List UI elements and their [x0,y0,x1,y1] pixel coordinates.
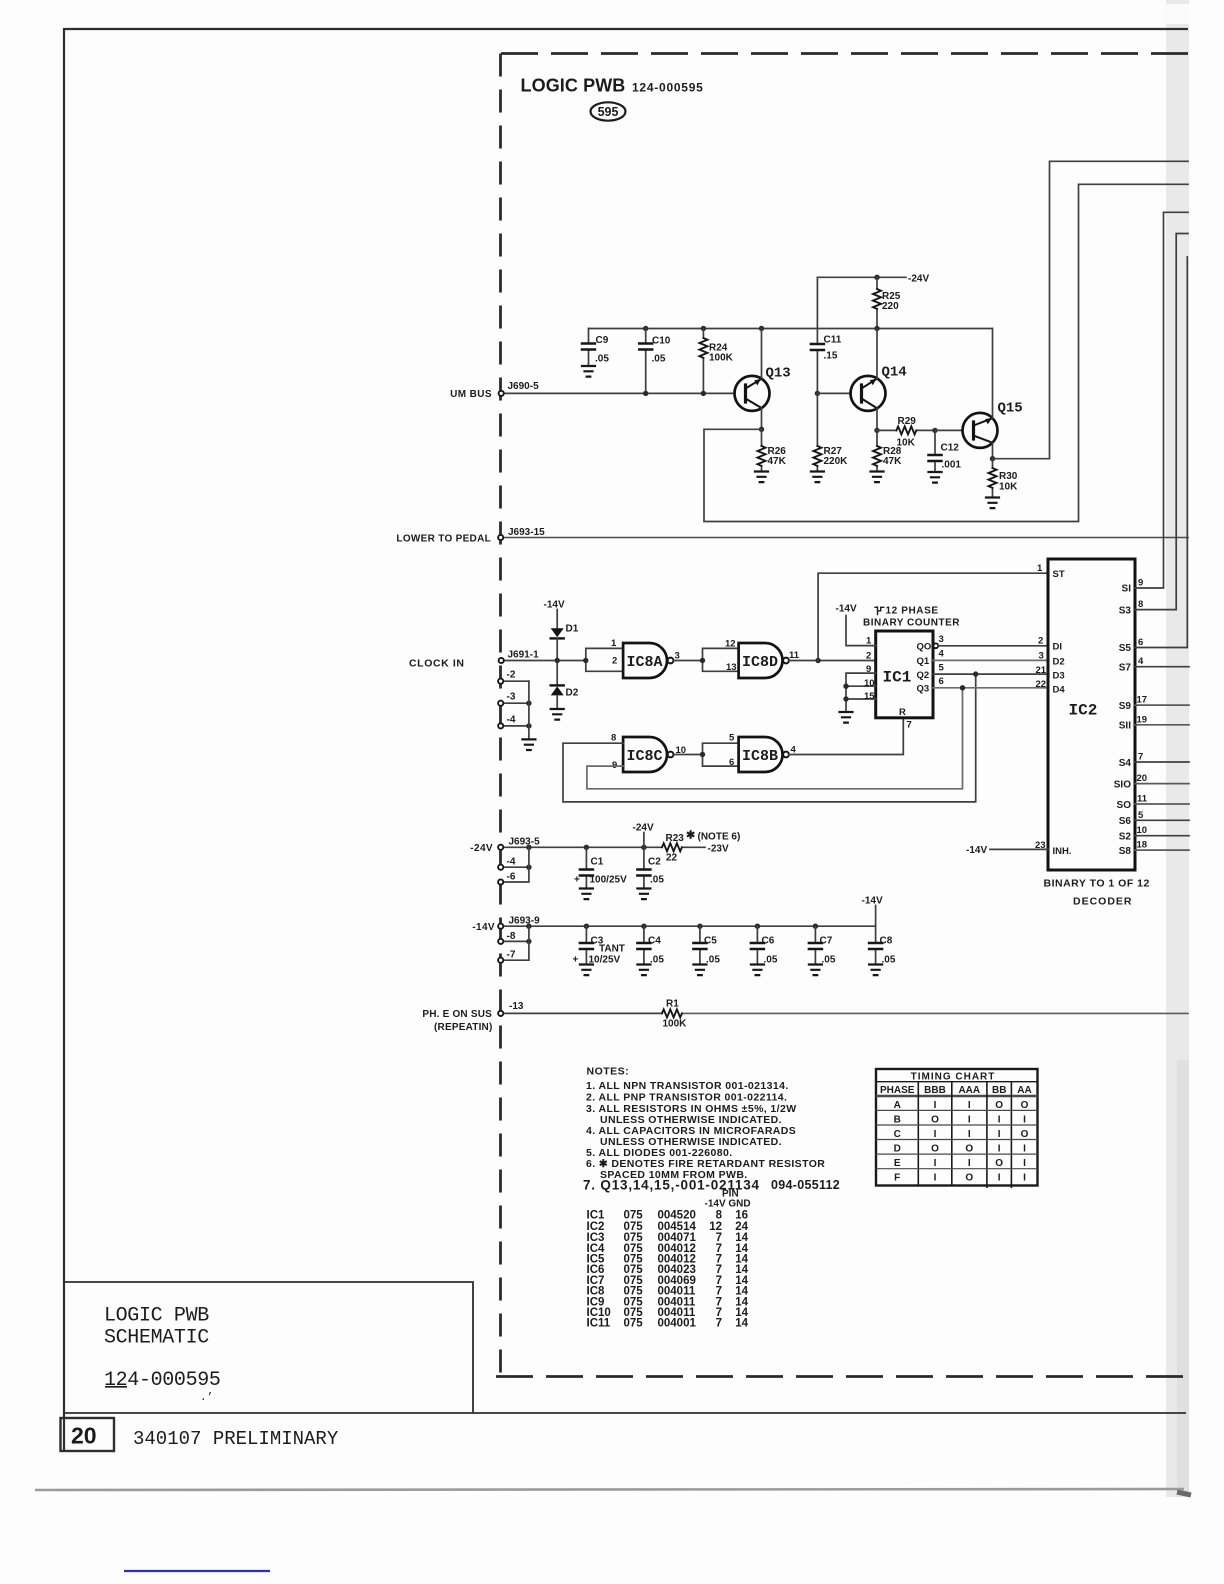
svg-text:O: O [931,1114,939,1125]
svg-text:Q13: Q13 [766,366,791,382]
svg-text:+: + [573,955,579,966]
connector pin -6 [498,847,529,884]
ground C1 [580,889,593,900]
svg-text:2. ALL PNP TRANSISTOR 001-022: 2. ALL PNP TRANSISTOR 001-022114. [586,1092,787,1104]
svg-text:47K: 47K [883,456,902,467]
svg-text:-14V: -14V [966,845,987,856]
transistor Q14 [851,329,907,431]
svg-text:I: I [968,1158,971,1169]
junction UM BUS/R24 [701,391,706,396]
svg-text:I: I [998,1114,1001,1125]
IC2 pin INH with -14V [966,840,1072,857]
svg-text:O: O [931,1144,939,1155]
svg-text:J690-5: J690-5 [508,381,540,392]
svg-text:.’: .’ [200,1392,213,1404]
IC1 Q0 output to IC2 D1 [917,634,1049,653]
svg-text:21: 21 [1036,665,1047,676]
svg-text:340107 PRELIMINARY: 340107 PRELIMINARY [133,1428,339,1450]
svg-text:✱: ✱ [686,830,695,842]
svg-text:Q14: Q14 [882,365,907,381]
svg-text:I: I [934,1100,937,1111]
ground R27 [811,472,824,483]
junction R25 top [874,275,879,280]
nand gate IC8B [729,733,797,773]
svg-text:S7: S7 [1119,663,1132,674]
svg-text:220: 220 [882,301,899,312]
svg-text:.05: .05 [706,955,720,966]
wire D1 to clock line to D2 [556,638,558,684]
connector circle J693-15 [498,535,503,540]
junction UM BUS/C10 [643,391,648,396]
svg-text:5: 5 [939,663,945,674]
svg-text:A: A [894,1100,901,1111]
capacitor C7 [809,926,836,965]
svg-text:Q2: Q2 [917,670,930,681]
svg-text:15: 15 [864,691,875,702]
svg-text:C4: C4 [648,936,661,947]
IC2 caption [1044,878,1150,908]
ground connector pins [522,739,535,750]
svg-text:-2: -2 [507,670,516,681]
svg-text:NOTES:: NOTES: [587,1066,630,1078]
svg-text:10K: 10K [999,482,1018,493]
IC2 output S5 pin6 [1119,257,1188,654]
node UM BUS input J690-5 [450,381,539,400]
svg-text:1: 1 [1037,563,1043,574]
ground C3 [580,965,593,976]
IC2 output S1 pin9 [1122,212,1188,594]
connector pin -4 (J693) [498,857,532,870]
svg-text:10: 10 [864,678,875,689]
node -24V input J693-5 [470,837,540,855]
svg-text:100K: 100K [709,353,734,364]
svg-text:D1: D1 [566,624,579,635]
connector pin -7 [498,926,529,963]
svg-text:J691-1: J691-1 [508,650,540,661]
svg-text:B: B [894,1114,901,1125]
svg-text:IC8B: IC8B [742,748,778,765]
nand gate IC8A [611,638,680,678]
svg-text:O: O [965,1144,973,1155]
transistor Q13 [735,329,791,430]
svg-text:R30: R30 [999,471,1018,482]
svg-text:IC8C: IC8C [627,748,663,765]
svg-text:LOGIC PWB: LOGIC PWB [104,1305,209,1328]
svg-text:Q1: Q1 [917,656,930,667]
svg-text:-14V: -14V [862,896,883,907]
capacitor C4 [637,926,664,965]
svg-text:C6: C6 [762,936,775,947]
timing chart table [876,1069,1038,1188]
diode D2 [551,685,579,698]
ground C8 [869,965,882,976]
junction clock/diodes [555,658,560,663]
svg-text:.05: .05 [764,955,778,966]
svg-text:11: 11 [1137,794,1148,805]
ground C2 [637,889,650,900]
junction bus/C10 [643,326,648,331]
wire LOWER TO PEDAL [503,537,1188,539]
connector circle J690-5 [499,391,504,396]
wire collector bus [589,328,993,330]
IC2 pin D3 [1036,665,1065,682]
wire pins -2-3-4 to ground [528,681,530,739]
wire IC8C pin8 from Q2 [563,674,976,802]
capacitor C1 electrolytic [574,847,627,888]
resistor R25 [873,277,901,328]
IC2 output S8 pin18 [1119,840,1189,857]
ground C6 [751,965,764,976]
svg-text:D2: D2 [1053,657,1065,668]
svg-text:8: 8 [611,733,616,744]
junction Q2/IC8C pin8 [973,671,978,676]
header title LOGIC PWB [521,76,704,96]
wire IC8A out to IC8D in [673,648,738,671]
svg-text:SIO: SIO [1114,780,1131,791]
ground IC1 inputs [840,712,853,723]
svg-text:2: 2 [1038,636,1043,647]
resistor R23 fire retardant [662,830,740,864]
svg-text:-14V GND: -14V GND [705,1199,751,1210]
svg-text:094-055112: 094-055112 [771,1178,840,1192]
wire D2 to ground [556,695,558,708]
svg-text:.15: .15 [824,351,838,362]
svg-text:I: I [998,1129,1001,1140]
svg-text:1. ALL NPN TRANSISTOR 001-021: 1. ALL NPN TRANSISTOR 001-021314. [586,1080,789,1092]
ground C12 [929,472,942,483]
svg-text:124-000595: 124-000595 [104,1369,221,1392]
svg-text:Q15: Q15 [998,401,1023,417]
svg-text:BB: BB [992,1085,1006,1096]
IC1 label 12 PHASE BINARY COUNTER [836,604,961,629]
notes text block [583,1066,840,1193]
ground R28 [871,472,884,483]
svg-text:I: I [998,1173,1001,1184]
svg-text:-4: -4 [507,857,516,868]
svg-text:D2: D2 [566,688,579,699]
ground R26 [755,472,768,483]
svg-text:C12: C12 [941,443,960,454]
svg-text:UM BUS: UM BUS [450,389,492,400]
svg-text:9: 9 [1138,578,1143,589]
svg-text:BINARY TO 1 OF 12: BINARY TO 1 OF 12 [1044,878,1150,890]
svg-text:19: 19 [1137,714,1148,725]
node PH.E ON SUS input -13 [422,1001,524,1033]
IC2 pin D4 [1036,679,1066,696]
svg-text:R23: R23 [666,833,685,844]
svg-text:S5: S5 [1119,643,1132,654]
svg-text:I: I [1023,1144,1026,1155]
transistor Q15 [963,329,1023,459]
svg-text:C1: C1 [591,857,604,868]
capacitor C10 [639,329,671,394]
svg-text:17: 17 [1137,695,1148,706]
svg-text:I: I [968,1114,971,1125]
svg-text:BBB: BBB [924,1085,946,1096]
svg-text:I: I [1023,1173,1026,1184]
svg-text:O: O [995,1100,1003,1111]
IC1 binary counter [876,631,933,718]
svg-text:LOGIC PWB: LOGIC PWB [521,76,626,96]
svg-text:-24V: -24V [470,843,493,854]
svg-text:3: 3 [939,634,944,645]
svg-text:SO: SO [1117,800,1132,811]
capacitor C3 tantalum [573,926,625,965]
IC2 output S7 pin4 [1119,656,1189,674]
diode D1 [551,624,579,639]
svg-text:22: 22 [666,853,678,864]
svg-text:4: 4 [1138,656,1144,667]
svg-text:20: 20 [1137,773,1148,784]
svg-text:CLOCK IN: CLOCK IN [409,658,465,670]
svg-text:10K: 10K [897,438,916,449]
wire Q14 base [817,392,851,394]
LOGIC PWB board boundary (dashed) [496,54,1188,1377]
svg-text:220K: 220K [824,456,849,467]
resistor R29 [877,416,935,449]
wire PH.E ON SUS with resistor R1 [498,999,1188,1030]
svg-text:I: I [998,1144,1001,1155]
svg-text:O: O [1021,1100,1029,1111]
svg-text:D3: D3 [1053,671,1065,682]
wire UM BUS [504,392,735,394]
svg-text:DI: DI [1053,642,1063,653]
connector pin -8 [498,931,532,944]
svg-text:12: 12 [725,639,736,650]
svg-text:TANT: TANT [599,944,625,955]
junction R29/C12/Q15 base [932,428,937,433]
svg-text:2: 2 [612,656,617,667]
IC2 output S2 pin10 [1119,825,1189,842]
wire -24V rail [503,846,705,848]
capacitor C2 [637,847,664,888]
wire IC1 pins 9 10 15 to ground [843,664,875,712]
svg-text:PH. E ON SUS: PH. E ON SUS [422,1009,492,1020]
svg-text:-8: -8 [507,931,516,942]
junction Q14 emitter node [874,428,879,433]
ground C5 [693,965,706,976]
ground R30 [986,498,999,509]
IC1 Q1 output to IC2 D2 [917,649,1049,668]
IC2 binary to 1 of 12 decoder [1048,559,1135,870]
svg-text:-23V: -23V [708,844,729,855]
svg-text:8: 8 [1138,599,1143,610]
svg-text:C10: C10 [652,336,671,347]
svg-text:1: 1 [866,636,872,647]
svg-text:IC8A: IC8A [627,654,663,671]
svg-text:595: 595 [598,105,619,119]
wire Q13 feedback to right edge [704,184,1188,521]
svg-text:13: 13 [726,662,737,673]
svg-text:R1: R1 [666,999,679,1010]
svg-text:-6: -6 [507,872,516,883]
connector circle J691-1 [499,658,504,663]
node -24V supply [817,274,929,285]
svg-text:O: O [965,1173,973,1184]
svg-text:C5: C5 [704,936,717,947]
IC2 output S11 pin19 [1119,714,1189,731]
ground C9 [582,366,595,377]
svg-text:.05: .05 [650,875,664,886]
svg-text:.001: .001 [942,460,962,471]
svg-text:S8: S8 [1119,846,1132,857]
node -14V input J693-9 [472,916,540,934]
svg-text:.05: .05 [595,354,609,365]
svg-text:20: 20 [71,1423,97,1449]
connector pin -4 [498,715,532,729]
IC2 output S10 pin20 [1114,773,1189,791]
wire CLOCK IN [504,660,586,662]
svg-text:S2: S2 [1119,832,1132,843]
svg-text:-4: -4 [507,715,516,726]
capacitor C5 [693,926,720,965]
svg-text:.05: .05 [652,354,666,365]
wire IC8C pin9 from Q3 [587,688,963,789]
connector pin -3 [498,692,532,706]
wire -14V to D1 [556,610,558,629]
wire IC8B out to IC1 R pin7 [789,718,903,755]
svg-text:9: 9 [866,664,871,675]
svg-text:D4: D4 [1053,685,1066,696]
svg-text:.05: .05 [882,955,896,966]
svg-text:I: I [1023,1158,1026,1169]
svg-text:S3: S3 [1119,606,1132,617]
svg-text:-14V: -14V [472,922,495,933]
IC2 output S0 pin11 [1117,794,1189,812]
nand gate IC8C [611,733,686,773]
svg-text:10: 10 [1137,825,1148,836]
wire Q15 base [935,429,963,431]
svg-text:18: 18 [1137,840,1148,851]
svg-text:22: 22 [1036,679,1047,690]
svg-text:I: I [968,1129,971,1140]
svg-text:I: I [968,1100,971,1111]
junction bus/R25/Q14 collector [874,326,879,331]
ground D2 [551,709,564,720]
svg-text:SII: SII [1119,721,1131,732]
nand gate IC8D [725,639,800,679]
svg-text:IC1: IC1 [883,669,912,687]
resistor R26 [758,429,787,471]
svg-text:100/25V: 100/25V [590,875,628,886]
svg-text:-14V: -14V [836,604,857,615]
svg-text:-3: -3 [507,692,516,703]
IC pin list table [587,1189,751,1330]
svg-text:S4: S4 [1119,758,1132,769]
junction Q15 emitter node [990,456,995,461]
svg-text:I: I [1023,1114,1026,1125]
resistor R27 [813,393,848,471]
IC2 output S6 pin5 [1119,810,1189,827]
svg-text:INH.: INH. [1053,846,1072,857]
svg-text:3: 3 [1039,651,1044,662]
svg-text:R: R [899,707,906,718]
capacitor C8 [869,926,896,965]
junction IC8D out / ST [815,658,820,663]
svg-text:O: O [1021,1129,1029,1140]
svg-text:C: C [894,1129,901,1140]
wire IC8C out to IC8B in [673,743,738,766]
svg-text:S6: S6 [1119,816,1132,827]
capacitor C6 [751,926,778,965]
svg-text:SI: SI [1122,584,1132,595]
IC2 pin ST [1037,563,1065,580]
IC1 Q2 output to IC2 D3 [917,663,1049,682]
wire to IC2 ST pin1 [818,573,1048,660]
svg-text:.05: .05 [650,955,664,966]
svg-text:4: 4 [939,649,945,660]
node CLOCK IN J691-1 [409,650,539,670]
part number oval 595 [591,102,626,120]
junction bus/Q13 collector [759,326,764,331]
svg-text:DECODER: DECODER [1073,896,1133,908]
svg-text:C11: C11 [824,335,842,346]
svg-text:AAA: AAA [958,1085,980,1096]
junction bus/R24 [701,326,706,331]
capacitor C9 [582,329,609,366]
svg-text:5: 5 [729,733,735,744]
svg-text:LOWER TO PEDAL: LOWER TO PEDAL [396,534,491,545]
svg-text:47K: 47K [768,456,787,467]
svg-text:J693-5: J693-5 [509,837,541,848]
capacitor C12 [929,430,962,471]
svg-text:J693-9: J693-9 [509,916,541,927]
svg-text:S9: S9 [1119,701,1132,712]
svg-text:6: 6 [939,676,944,687]
svg-text:SCHEMATIC: SCHEMATIC [104,1327,209,1350]
svg-text:(REPEATIN): (REPEATIN) [434,1022,492,1033]
svg-text:C2: C2 [648,857,661,868]
resistor R24 [699,329,733,394]
wire Q15 emitter to right edge [993,161,1189,458]
svg-text:D: D [894,1144,901,1155]
svg-text:I: I [934,1158,937,1169]
svg-text:J693-15: J693-15 [508,527,545,538]
svg-text:7: 7 [907,720,912,731]
svg-text:-14V: -14V [544,600,565,611]
svg-text:-13: -13 [509,1001,524,1012]
ground C4 [637,965,650,976]
svg-text:5: 5 [1138,810,1144,821]
node -14V feed to rail [862,896,883,927]
svg-text:BINARY COUNTER: BINARY COUNTER [863,618,960,629]
svg-text:-24V: -24V [908,274,929,285]
resistor R28 [873,430,902,471]
connector pin -2 [498,670,529,684]
junction Q3/IC8C pin9 [960,685,965,690]
IC1 Q3 output to IC2 D4 [917,676,1049,695]
svg-text:IC8D: IC8D [742,654,778,671]
svg-text:2: 2 [866,651,871,662]
svg-text:124-000595: 124-000595 [632,81,704,95]
svg-text:AA: AA [1017,1085,1031,1096]
svg-text:TIMING CHART: TIMING CHART [911,1071,996,1082]
svg-text:C7: C7 [820,936,833,947]
wire clock into IC8A inputs [586,648,623,671]
svg-text:+: + [574,875,580,886]
wire -14V rail [503,925,875,927]
svg-text:IC2: IC2 [1069,702,1098,720]
IC2 pin D2 [1039,651,1065,668]
svg-text:1: 1 [611,638,617,649]
svg-text:E: E [894,1158,901,1169]
IC2 output S3 pin8 [1119,234,1188,617]
IC2 output S9 pin17 [1119,695,1189,713]
svg-text:11: 11 [789,650,800,661]
svg-text:-7: -7 [507,950,516,961]
svg-text:O: O [995,1158,1003,1169]
svg-text:12 PHASE: 12 PHASE [886,606,939,617]
